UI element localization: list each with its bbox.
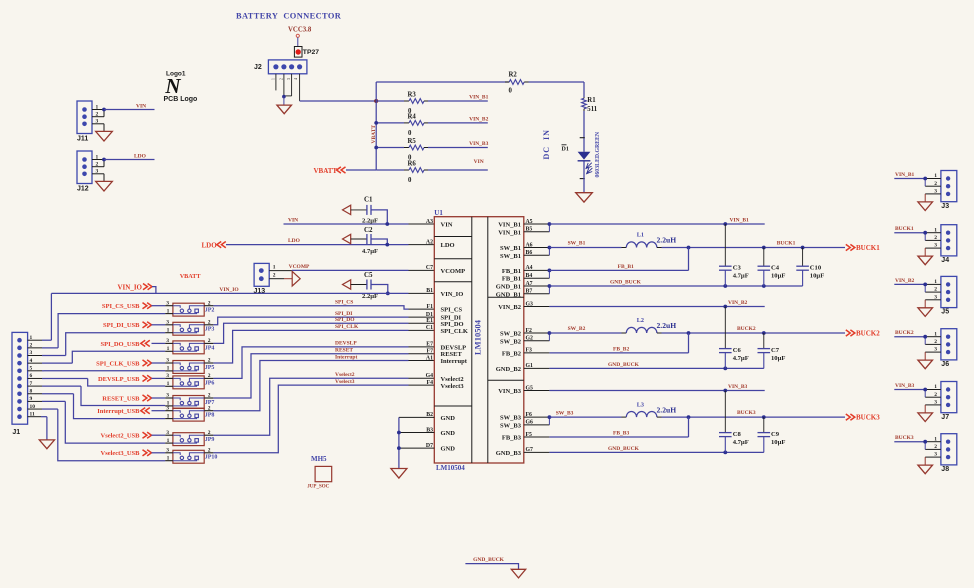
ground at J7 pin3	[918, 405, 933, 422]
svg-text:F5: F5	[526, 432, 533, 438]
svg-text:4: 4	[294, 78, 298, 80]
svg-text:3: 3	[287, 78, 291, 80]
wire trunk to R4	[376, 122, 404, 124]
svg-text:511: 511	[587, 106, 597, 113]
connector J8	[925, 434, 957, 473]
svg-text:1: 1	[934, 227, 937, 233]
ground at J6 pin3	[918, 352, 933, 369]
svg-text:FB_B3: FB_B3	[502, 435, 522, 442]
wire GND_BUCK 2	[549, 367, 763, 371]
wire to R2	[376, 81, 509, 83]
wire J1.1 to VIN_IO rail	[50, 293, 52, 340]
wire J2 pin4 to VBATT trunk	[300, 100, 377, 102]
svg-text:Vselect2_USB: Vselect2_USB	[101, 433, 141, 440]
svg-text:C2: C2	[364, 226, 373, 234]
U1 pin G3 (VIN_B2)	[524, 301, 550, 307]
jumper JP7	[165, 393, 214, 409]
wire JP8 pin2 to U1 (Interrupt)	[213, 361, 434, 411]
net label BUCK1 at J4	[895, 226, 914, 232]
jumper JP10	[165, 447, 217, 463]
svg-text:3: 3	[934, 347, 937, 353]
svg-text:BATTERY CONNECTOR: BATTERY CONNECTOR	[236, 12, 342, 21]
svg-text:C6: C6	[733, 347, 742, 354]
svg-text:SW_B3: SW_B3	[556, 410, 574, 416]
ground at J12 pin3	[96, 174, 113, 191]
U1 pin F3 (FB_B2)	[524, 348, 550, 354]
wire FB_B1	[549, 248, 688, 271]
svg-text:VCOMP: VCOMP	[289, 264, 310, 270]
svg-text:LDO: LDO	[288, 238, 301, 244]
svg-text:2: 2	[280, 78, 284, 80]
port SPI_CLK_USB	[96, 360, 151, 368]
wire LDO from J12	[102, 158, 154, 162]
title BATTERY CONNECTOR	[236, 12, 342, 21]
J1 pin 1 stub	[28, 335, 52, 341]
jumper JP6	[165, 373, 214, 389]
wire GND_BUCK 3	[549, 451, 763, 455]
U1 left pin numbers	[426, 219, 434, 386]
svg-text:3: 3	[96, 119, 99, 125]
svg-text:L2: L2	[637, 317, 644, 324]
svg-text:1: 1	[96, 154, 99, 160]
port VIN_IO	[118, 283, 156, 293]
net label VIN_B1	[469, 95, 489, 101]
connector J13	[254, 263, 292, 295]
wire port to JP10 pin3	[152, 452, 166, 454]
svg-text:4.7µF: 4.7µF	[733, 273, 749, 280]
J2 pin stubs and pin numbers	[272, 74, 300, 101]
net label VIN_IO rail	[219, 287, 239, 293]
port Vselect3_USB	[101, 450, 152, 458]
capacitor C2 4.7uF	[343, 226, 390, 255]
junction J2 ground node	[282, 95, 286, 99]
svg-text:VIN_IO: VIN_IO	[441, 291, 464, 298]
svg-text:VIN_B1: VIN_B1	[498, 222, 521, 229]
resistor R1 511	[582, 97, 598, 113]
svg-text:R3: R3	[408, 92, 417, 99]
wire J1.9 to JP9.1	[65, 401, 165, 443]
wire JP10 pin2 to U1 (Vselect3)	[213, 385, 434, 453]
svg-text:C7: C7	[771, 347, 780, 354]
svg-text:Vselect3: Vselect3	[335, 379, 355, 385]
resistor R5 0	[404, 138, 428, 162]
label DC IN	[542, 129, 551, 159]
U1 pins A5 B5 (VIN_B1)	[524, 219, 552, 233]
svg-text:F1: F1	[427, 304, 434, 310]
svg-text:2.2uH: 2.2uH	[657, 236, 677, 245]
svg-text:A7: A7	[526, 281, 533, 287]
svg-text:2: 2	[208, 393, 211, 399]
svg-text:SPI_CLK: SPI_CLK	[335, 324, 359, 330]
net label VIN	[474, 159, 484, 165]
svg-text:2: 2	[934, 392, 937, 398]
net label BUCK2 at J6	[895, 330, 914, 336]
net label GND_BUCK	[610, 280, 642, 286]
J1 pin 3 stub	[28, 350, 66, 356]
svg-text:3: 3	[166, 430, 169, 436]
svg-text:4.7µF: 4.7µF	[733, 355, 749, 362]
svg-text:GND_BUCK: GND_BUCK	[610, 280, 642, 286]
wire SW_B1 to inductor	[549, 247, 626, 249]
net label GND_BUCK	[608, 446, 640, 452]
svg-text:2: 2	[273, 273, 276, 279]
svg-text:D1: D1	[562, 146, 569, 152]
J1 pin 9 stub	[28, 396, 66, 402]
svg-text:2: 2	[96, 162, 99, 168]
svg-text:1: 1	[167, 381, 170, 387]
wire VIN from J11	[102, 108, 154, 112]
net label Vselect2	[335, 372, 355, 378]
net label VIN_B3	[728, 384, 748, 390]
J1 pin 10 stub	[28, 404, 58, 410]
svg-text:1: 1	[167, 438, 170, 444]
svg-text:FB_B1: FB_B1	[502, 268, 521, 275]
net label VIN	[136, 104, 146, 110]
svg-text:B4: B4	[526, 273, 533, 279]
J1 pin 11 stub	[28, 411, 43, 417]
net label SW_B1	[568, 241, 586, 247]
svg-text:C7: C7	[426, 265, 433, 271]
ground below LED	[576, 193, 593, 202]
net label VIN rail	[288, 218, 298, 224]
wire BUCK1 to J4	[894, 231, 927, 241]
svg-text:1: 1	[167, 346, 170, 352]
wire port to JP2 pin3	[152, 305, 166, 307]
wire GND_BUCK 1	[549, 284, 802, 288]
svg-text:SW_B2: SW_B2	[500, 331, 521, 338]
wire FB_B2	[549, 333, 688, 353]
wire trunk to R3	[376, 100, 404, 102]
wire VBATT trunk vertical	[375, 82, 377, 170]
wire J1.11 to ground	[43, 417, 47, 440]
svg-text:G1: G1	[526, 363, 534, 369]
svg-text:JP4: JP4	[205, 345, 215, 351]
net label RESET	[335, 348, 353, 354]
svg-text:SPI_DO: SPI_DO	[441, 321, 464, 328]
wire VIN_B3 to J7	[894, 388, 927, 398]
svg-text:J8: J8	[941, 466, 949, 473]
svg-text:FB_B2: FB_B2	[502, 350, 521, 357]
wire VIN_B2 to J5	[894, 283, 927, 293]
svg-text:DEVSLP_USB: DEVSLP_USB	[98, 376, 140, 383]
svg-text:SPI_CLK_USB: SPI_CLK_USB	[96, 360, 140, 367]
svg-text:F3: F3	[526, 348, 533, 354]
svg-text:VCC3.8: VCC3.8	[288, 27, 312, 34]
svg-text:VIN_B2: VIN_B2	[895, 278, 915, 284]
svg-text:BUCK3: BUCK3	[737, 410, 756, 416]
svg-text:A2: A2	[426, 239, 433, 245]
wire JP3 pin2 to U1 (SPI_DI)	[213, 317, 434, 325]
svg-text:VIN_B1: VIN_B1	[895, 172, 915, 178]
net label VIN_B3 at J7	[895, 383, 915, 389]
junction trunk-R4	[374, 121, 378, 125]
svg-text:FB_B3: FB_B3	[613, 431, 629, 437]
svg-text:C3: C3	[733, 264, 742, 271]
svg-text:2.2uH: 2.2uH	[657, 321, 677, 330]
svg-text:VBATT: VBATT	[180, 273, 202, 280]
wire BUCK3 to J8	[894, 440, 927, 450]
wire port to JP6 pin3	[152, 377, 166, 379]
capacitor C8 4.7uF	[719, 391, 749, 453]
svg-text:U1: U1	[434, 209, 443, 217]
capacitor C10 10uF	[796, 248, 824, 287]
ground at J3 pin3	[918, 194, 933, 211]
svg-text:VBATT: VBATT	[314, 167, 338, 175]
net label SW_B2	[568, 326, 586, 332]
svg-text:TP27: TP27	[303, 49, 319, 56]
svg-text:2: 2	[208, 338, 211, 344]
wire JP6 pin2 to U1 (DEVSLP)	[213, 347, 434, 379]
svg-text:C10: C10	[810, 264, 822, 271]
net label SPI_CS	[335, 299, 353, 305]
svg-text:3: 3	[934, 400, 937, 406]
net label SW_B3	[556, 410, 574, 416]
svg-text:J11: J11	[77, 136, 88, 143]
wire J1.5 to JP5.1	[44, 370, 165, 372]
wire J1.10 to JP10.1	[58, 409, 165, 461]
wire R1 to LED D1	[583, 111, 585, 152]
svg-text:J6: J6	[941, 361, 949, 368]
svg-text:C5: C5	[364, 271, 373, 279]
net label VIN_B2	[728, 300, 748, 306]
wire R4 to net VIN_B2	[428, 122, 488, 124]
svg-text:GND_B1: GND_B1	[496, 291, 521, 298]
svg-text:GND_BUCK: GND_BUCK	[608, 446, 640, 452]
ground at J2	[277, 97, 292, 114]
U1 GND pins B2 B3 D7	[399, 412, 434, 449]
port BUCK3	[846, 414, 880, 422]
svg-text:R2: R2	[509, 72, 518, 79]
svg-text:N: N	[164, 74, 181, 98]
wire trunk to R5	[376, 147, 404, 149]
U1 pins F2 G2 (SW_B2)	[524, 328, 552, 342]
junction VBATT-R3 node	[374, 99, 378, 103]
svg-text:A4: A4	[526, 265, 533, 271]
svg-text:VIN_B3: VIN_B3	[895, 383, 915, 389]
wire VIN_IO rail to U1 pin B1	[51, 292, 434, 294]
port Vselect2_USB	[101, 432, 152, 440]
svg-text:VIN: VIN	[441, 222, 453, 229]
svg-text:SPI_DI: SPI_DI	[335, 311, 352, 317]
svg-text:FB_B1: FB_B1	[502, 276, 521, 283]
connector J11	[77, 101, 104, 143]
net label Interrupt	[335, 354, 357, 360]
svg-text:1: 1	[167, 413, 170, 419]
svg-text:VIN_B3: VIN_B3	[498, 388, 522, 395]
svg-text:FB_B2: FB_B2	[613, 347, 629, 353]
svg-text:R4: R4	[408, 113, 417, 120]
svg-text:SPI_DO_USB: SPI_DO_USB	[100, 341, 140, 348]
connector J2	[254, 60, 307, 74]
svg-text:SPI_DI_USB: SPI_DI_USB	[103, 322, 140, 329]
wire port to JP9 pin3	[152, 434, 166, 436]
wire VIN rail to U1 pin A3	[284, 223, 435, 225]
svg-text:4.7µF: 4.7µF	[362, 248, 378, 255]
svg-text:0603LED.GREEN: 0603LED.GREEN	[595, 131, 601, 177]
J1 pin 8 stub	[28, 388, 74, 394]
connector J4	[925, 225, 957, 264]
svg-text:2: 2	[934, 339, 937, 345]
svg-text:J2: J2	[254, 64, 262, 71]
ground at J1 pin11	[39, 440, 54, 449]
svg-text:SW_B1: SW_B1	[500, 253, 521, 260]
U1 pin F5 (FB_B3)	[524, 432, 550, 438]
wire VIN_B3	[549, 389, 764, 393]
svg-text:SW_B3: SW_B3	[500, 422, 522, 429]
wire J1.7 to JP7.1	[81, 386, 165, 405]
wire U1 GND bus	[397, 417, 401, 468]
svg-text:10µF: 10µF	[810, 273, 824, 280]
resistor R2	[505, 72, 529, 95]
connector J12	[77, 151, 104, 193]
U1 left pin names	[441, 222, 468, 453]
svg-text:10µF: 10µF	[771, 273, 785, 280]
svg-text:2: 2	[934, 444, 937, 450]
wire BUCK1 output	[662, 246, 846, 250]
svg-text:10µF: 10µF	[771, 439, 785, 446]
svg-text:SW_B2: SW_B2	[568, 326, 586, 332]
U1 pins A6 B6 (SW_B1)	[524, 242, 552, 256]
net label BUCK1	[777, 241, 796, 247]
wire JP7 pin2 to U1 (RESET)	[213, 354, 434, 398]
net label LDO	[134, 154, 147, 160]
svg-text:JP2: JP2	[205, 308, 215, 314]
svg-text:J12: J12	[77, 186, 89, 193]
svg-text:2: 2	[208, 405, 211, 411]
net label GND_BUCK bottom	[473, 557, 505, 563]
svg-text:LDO: LDO	[441, 242, 455, 249]
svg-text:F4: F4	[427, 380, 434, 386]
svg-text:3: 3	[96, 169, 99, 175]
net label VIN_B1 at J3	[895, 172, 915, 178]
svg-text:G6: G6	[526, 420, 534, 426]
svg-text:B7: B7	[526, 289, 533, 295]
svg-text:1: 1	[167, 456, 170, 462]
J1 pin 7 stub	[28, 381, 81, 387]
svg-text:4.7µF: 4.7µF	[733, 439, 749, 446]
svg-text:JP9: JP9	[205, 437, 215, 443]
U1 pin G7 (GND_B3)	[524, 447, 550, 453]
U1 pin G1 (GND_B2)	[524, 363, 550, 369]
svg-text:A5: A5	[526, 219, 533, 225]
connector J5	[925, 276, 957, 315]
net label DEVSLP	[335, 341, 357, 347]
svg-text:1: 1	[96, 104, 99, 110]
wire JP5 pin2 to U1 (SPI_CLK)	[213, 330, 434, 363]
svg-text:1: 1	[167, 328, 170, 334]
resistor R3 0	[404, 92, 428, 116]
net label VBATT vertical	[371, 125, 377, 144]
wire BUCK3 output	[662, 415, 846, 419]
svg-text:3: 3	[166, 319, 169, 325]
capacitor C4 10uF	[758, 248, 786, 287]
svg-text:C4: C4	[771, 264, 780, 271]
mounting hole MH5 JUP_SOC	[307, 455, 331, 490]
svg-text:B5: B5	[526, 227, 533, 233]
wire FB_B3	[549, 417, 688, 437]
ground GND_BUCK bottom	[511, 569, 525, 578]
net label Vselect3	[335, 379, 355, 385]
J1 pin 2 stub	[28, 343, 58, 349]
wire JP9 pin2 to U1 (Vselect2)	[213, 378, 434, 435]
svg-text:8: 8	[30, 388, 33, 394]
ground at J5 pin3	[918, 300, 933, 317]
svg-text:10: 10	[30, 404, 36, 410]
junction trunk-R5	[374, 146, 378, 150]
U1 pin A2 stub	[409, 244, 435, 246]
net label SPI_DO	[335, 317, 355, 323]
svg-text:VIN_IO: VIN_IO	[219, 287, 239, 293]
inductor L3 2.2uH	[626, 401, 676, 417]
svg-text:Vselect3_USB: Vselect3_USB	[101, 450, 141, 457]
ground at J4 pin3	[918, 248, 933, 265]
off-page arrow at J13 pin2	[284, 271, 300, 286]
net label VCOMP	[289, 264, 310, 270]
power flag VCC3.8	[288, 27, 312, 47]
net label FB_B1	[618, 264, 634, 270]
wire SW_B3 to inductor	[549, 416, 626, 418]
svg-text:0: 0	[509, 88, 513, 95]
svg-text:J3: J3	[941, 203, 949, 210]
svg-text:1: 1	[934, 331, 937, 337]
svg-text:3: 3	[934, 294, 937, 300]
net label VIN_B2	[469, 117, 489, 123]
svg-text:F2: F2	[526, 328, 533, 334]
svg-text:3: 3	[166, 373, 169, 379]
svg-text:GND: GND	[441, 415, 456, 422]
wire VIN_B1	[549, 222, 764, 226]
svg-text:B1: B1	[426, 288, 433, 294]
svg-text:FB_B1: FB_B1	[618, 264, 634, 270]
svg-text:R5: R5	[408, 138, 417, 145]
net label SPI_DI	[335, 311, 352, 317]
svg-text:C1: C1	[426, 325, 433, 331]
svg-text:G5: G5	[526, 385, 534, 391]
svg-text:RESET: RESET	[335, 348, 353, 354]
svg-text:A3: A3	[426, 219, 433, 225]
svg-text:F6: F6	[526, 412, 533, 418]
J1 pin 6 stub	[28, 373, 88, 379]
svg-text:BUCK2: BUCK2	[737, 326, 756, 332]
net label BUCK3 at J8	[895, 435, 914, 441]
capacitor C3 4.7uF	[719, 224, 749, 286]
svg-text:4: 4	[30, 358, 33, 364]
svg-text:C1: C1	[364, 195, 373, 203]
port VBATT	[314, 167, 377, 175]
svg-text:1: 1	[167, 308, 170, 314]
test point TP27	[294, 47, 319, 58]
svg-text:G7: G7	[526, 447, 534, 453]
svg-text:VIN_B3: VIN_B3	[469, 141, 489, 147]
svg-text:VIN_B2: VIN_B2	[728, 300, 748, 306]
wire port to JP4 pin3	[152, 342, 166, 344]
svg-text:JP8: JP8	[205, 413, 215, 419]
wire J1.6 to JP6.1	[88, 379, 166, 387]
svg-text:L3: L3	[637, 401, 644, 408]
connector J1	[12, 332, 28, 436]
svg-text:5: 5	[30, 366, 33, 372]
svg-text:D1: D1	[426, 312, 433, 318]
capacitor C1 2.2uF	[343, 195, 390, 226]
wire trunk to R6	[376, 169, 404, 171]
wire SW_B2 to inductor	[549, 332, 626, 334]
svg-text:3: 3	[934, 452, 937, 458]
svg-text:2: 2	[208, 358, 211, 364]
svg-text:E1: E1	[426, 318, 433, 324]
wire R5 to net VIN_B3	[428, 147, 488, 149]
svg-text:DC IN: DC IN	[542, 129, 551, 159]
svg-text:LM10504: LM10504	[473, 319, 483, 355]
